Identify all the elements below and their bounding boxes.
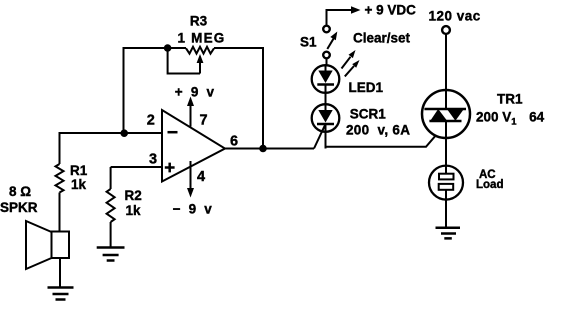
- svg-text:TR1: TR1: [497, 91, 523, 106]
- wire right feedback vertical: [262, 47, 264, 149]
- SCR1 gate wire: [314, 124, 326, 149]
- ground AC load: [436, 228, 461, 239]
- svg-text:1k: 1k: [126, 203, 142, 218]
- svg-text:7: 7: [199, 112, 207, 128]
- ground speaker: [48, 288, 74, 300]
- svg-text:2: 2: [147, 112, 155, 128]
- LED1: [312, 65, 340, 93]
- junction output node: [259, 145, 267, 153]
- wire pin2: [60, 132, 163, 134]
- svg-text:1k: 1k: [71, 177, 87, 192]
- svg-text:120 vac: 120 vac: [429, 8, 481, 23]
- speaker SPKR: [26, 221, 69, 269]
- wire R2 top lead: [110, 167, 112, 189]
- ground R2: [97, 248, 125, 261]
- wire SCR cathode to TR1 gate: [326, 134, 437, 147]
- wire speaker to ground: [59, 258, 61, 288]
- pin7 supply arrow up: [187, 97, 194, 127]
- svg-text:+ 9 VDC: + 9 VDC: [365, 3, 417, 18]
- wire 120vac to TR1: [445, 34, 447, 109]
- wire TR1 to AC load: [445, 121, 447, 166]
- svg-text:4: 4: [197, 169, 205, 185]
- SCR1: [312, 104, 340, 148]
- svg-text:8 Ω: 8 Ω: [9, 184, 31, 199]
- svg-text:R2: R2: [125, 188, 142, 203]
- svg-text:Load: Load: [476, 179, 503, 191]
- svg-text:S1: S1: [300, 35, 317, 50]
- pin4 supply arrow down: [187, 161, 194, 198]
- svg-text:− 9 v: − 9 v: [173, 202, 214, 217]
- op-amp U1 triangle: [162, 110, 225, 182]
- wire output pin6: [225, 148, 314, 150]
- minus sign inverting input: [168, 131, 178, 134]
- svg-text:200 v, 6A: 200 v, 6A: [346, 122, 410, 137]
- svg-text:SCR1: SCR1: [350, 107, 387, 122]
- svg-text:LED1: LED1: [349, 80, 384, 95]
- svg-text:6: 6: [230, 133, 238, 149]
- svg-text:1 MEG: 1 MEG: [178, 31, 226, 46]
- svg-text:3: 3: [149, 151, 157, 167]
- svg-text:R1: R1: [70, 163, 88, 178]
- LED1 emission arrow 1: [342, 50, 356, 69]
- junction feedback to pin2: [120, 129, 128, 137]
- resistor R2: [107, 189, 115, 222]
- svg-text:+ 9 v: + 9 v: [175, 84, 216, 99]
- wire AC load to ground: [445, 200, 447, 228]
- wire left feedback vertical: [123, 47, 125, 133]
- wire wiper loop: [168, 48, 200, 74]
- plus sign noninverting input: [165, 163, 175, 173]
- R3 wiper arrow: [197, 54, 204, 74]
- wire top feedback horizontal: [124, 47, 264, 49]
- resistor R3 zigzag: [186, 47, 214, 54]
- switch S1 terminal top: [323, 26, 330, 33]
- svg-text:SPKR: SPKR: [0, 200, 38, 215]
- triac TR1: [422, 90, 470, 138]
- wire R1 top lead: [59, 132, 61, 164]
- wire LED1 to SCR1: [325, 93, 327, 105]
- AC load: [429, 166, 463, 200]
- wire S1 to +9VDC arrow: [327, 6, 361, 26]
- switch S1 terminal bottom: [323, 52, 330, 59]
- wire pin3: [111, 166, 162, 168]
- svg-text:R3: R3: [190, 13, 208, 28]
- LED1 emission arrow 2: [345, 60, 360, 76]
- terminal 120 vac: [442, 26, 450, 34]
- svg-text:Clear/set: Clear/set: [353, 31, 411, 46]
- wire R2 to ground: [110, 222, 112, 248]
- switch S1 arm: [327, 32, 337, 50]
- resistor R1: [56, 164, 64, 193]
- junction wiper-top-wire: [164, 44, 172, 52]
- wire S1 to LED1: [326, 58, 328, 65]
- wire R1 to speaker: [59, 193, 61, 232]
